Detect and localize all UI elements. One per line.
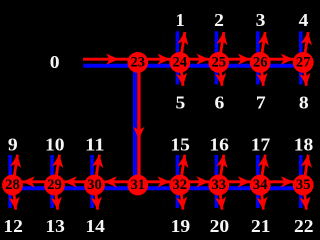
arrow 31 to 32 — [138, 180, 170, 183]
arrow down to leaf 6 — [220, 65, 222, 85]
arrow 26 to 27 — [260, 58, 293, 61]
svg-text:28: 28 — [5, 177, 20, 193]
svg-text:3: 3 — [256, 10, 266, 30]
wire: blue stub down from node at x=54 bottom row — [50, 185, 54, 208]
arrow down to leaf 8 — [304, 65, 306, 85]
wire: blue stub up from node at x=303 bottom row — [299, 155, 303, 185]
svg-text:1: 1 — [176, 10, 185, 30]
svg-text:13: 13 — [45, 216, 65, 236]
arrow up to leaf 18 — [304, 155, 308, 182]
svg-text:12: 12 — [3, 216, 23, 236]
wire: blue stub down from node at x=94 bottom row — [90, 185, 94, 208]
arrow up to leaf 16 — [220, 155, 224, 182]
arrow up to leaf 2 — [220, 32, 224, 59]
arrow down to leaf 22 — [304, 188, 306, 210]
wire: bottom chain blue edge 28-29-30-31-32-33-34-35 — [13, 186, 304, 190]
svg-text:0: 0 — [50, 52, 60, 72]
svg-text:9: 9 — [8, 135, 18, 155]
arrow down to leaf 20 — [220, 188, 222, 210]
svg-text:31: 31 — [131, 177, 146, 193]
wire: blue stub up from node at x=260 bottom row — [256, 155, 260, 185]
svg-text:35: 35 — [296, 177, 311, 193]
svg-text:17: 17 — [251, 135, 271, 155]
svg-text:4: 4 — [299, 10, 309, 30]
wire: blue stub up from node at x=260 top row — [256, 31, 260, 62]
wire: blue stub down from node at x=219 bottom row — [215, 185, 219, 208]
arrow up to leaf 1 — [181, 32, 185, 59]
wire: blue stub down from node at x=303 bottom row — [299, 185, 303, 208]
arrow down to leaf 14 — [95, 188, 97, 210]
svg-text:33: 33 — [212, 177, 227, 193]
arrow 30 to 29 — [64, 180, 94, 183]
node 30 — [84, 175, 105, 196]
node 25 — [208, 52, 229, 73]
node 32 — [169, 175, 190, 196]
arrow up to leaf 15 — [181, 155, 185, 182]
arrow down to leaf 7 — [261, 65, 263, 85]
arrow 0 to 23 — [83, 58, 128, 61]
node 27 — [293, 52, 314, 73]
wire: blue stub down from node at x=180 top row — [176, 62, 180, 84]
arrow up to leaf 11 — [95, 155, 99, 182]
svg-text:7: 7 — [256, 93, 266, 113]
wire: blue stub down from node at x=180 bottom row — [176, 185, 180, 208]
arrow down to leaf 19 — [181, 188, 183, 210]
wire: blue stub down from node at x=12 bottom row — [8, 185, 12, 208]
svg-text:2: 2 — [214, 10, 224, 30]
arrow 23 down to 31 — [137, 62, 140, 175]
arrow up to leaf 3 — [261, 32, 265, 59]
arrow up to leaf 9 — [13, 155, 17, 182]
node 35 — [293, 175, 314, 196]
wire: blue stub down from node at x=260 bottom row — [256, 185, 260, 208]
svg-text:25: 25 — [212, 54, 227, 70]
svg-text:24: 24 — [173, 54, 188, 70]
svg-text:8: 8 — [299, 93, 309, 113]
node 26 — [250, 52, 271, 73]
wire: blue stub up from node at x=180 bottom row — [176, 155, 180, 185]
wire: blue stub up from node at x=219 top row — [215, 31, 219, 62]
arrow 31 to 30 — [104, 180, 138, 183]
wire: blue stub up from node at x=12 bottom row — [8, 155, 12, 185]
wire: top chain blue edge 0-23-24-25-26-27 — [83, 64, 303, 68]
svg-text:21: 21 — [251, 216, 271, 236]
svg-text:19: 19 — [171, 216, 191, 236]
arrow 29 to 28 — [22, 180, 54, 183]
wire: blue stub up from node at x=54 bottom row — [50, 155, 54, 185]
svg-text:14: 14 — [85, 216, 105, 236]
arrow down to leaf 5 — [181, 65, 183, 85]
node 29 — [44, 175, 65, 196]
arrow 33 to 34 — [219, 180, 251, 183]
svg-text:5: 5 — [176, 93, 186, 113]
svg-text:6: 6 — [215, 93, 225, 113]
svg-text:10: 10 — [45, 135, 65, 155]
arrow 24 to 25 — [180, 58, 209, 61]
wire: blue stub down from node at x=260 top row — [256, 62, 260, 84]
arrow down to leaf 21 — [261, 188, 263, 210]
wire: blue stub up from node at x=94 bottom row — [90, 155, 94, 185]
wire: blue stub down from node at x=219 top row — [215, 62, 219, 84]
arrow up to leaf 17 — [261, 155, 265, 182]
node 34 — [250, 175, 271, 196]
arrow 25 to 26 — [219, 58, 251, 61]
svg-text:29: 29 — [47, 177, 62, 193]
arrow up to leaf 10 — [55, 155, 59, 182]
svg-text:27: 27 — [296, 54, 311, 70]
node 31 — [127, 175, 148, 196]
node 24 — [169, 52, 190, 73]
arrow 34 to 35 — [260, 180, 293, 183]
svg-text:32: 32 — [173, 177, 188, 193]
arrow 32 to 33 — [180, 180, 209, 183]
svg-text:11: 11 — [85, 135, 105, 155]
svg-text:15: 15 — [170, 135, 190, 155]
arrow up to leaf 4 — [304, 32, 308, 59]
svg-text:23: 23 — [131, 54, 146, 70]
wire: blue stub down from node at x=303 top row — [299, 62, 303, 84]
wire: blue stub up from node at x=303 top row — [299, 31, 303, 62]
svg-text:18: 18 — [294, 135, 314, 155]
svg-text:20: 20 — [210, 216, 230, 236]
svg-text:26: 26 — [253, 54, 268, 70]
arrow 23 to 24 — [138, 58, 170, 61]
svg-text:34: 34 — [253, 177, 268, 193]
arrow down to leaf 13 — [55, 188, 57, 210]
svg-text:22: 22 — [294, 216, 314, 236]
wire: blue stub up from node at x=180 top row — [176, 31, 180, 62]
arrow down to leaf 12 — [13, 188, 15, 210]
wire: blue stub up from node at x=219 bottom row — [215, 155, 219, 185]
node 28 — [2, 175, 23, 196]
wire: vertical trunk blue edge 23-31 — [133, 62, 137, 185]
node 33 — [208, 175, 229, 196]
node 23 — [127, 52, 148, 73]
svg-text:30: 30 — [87, 177, 102, 193]
svg-text:16: 16 — [209, 135, 229, 155]
